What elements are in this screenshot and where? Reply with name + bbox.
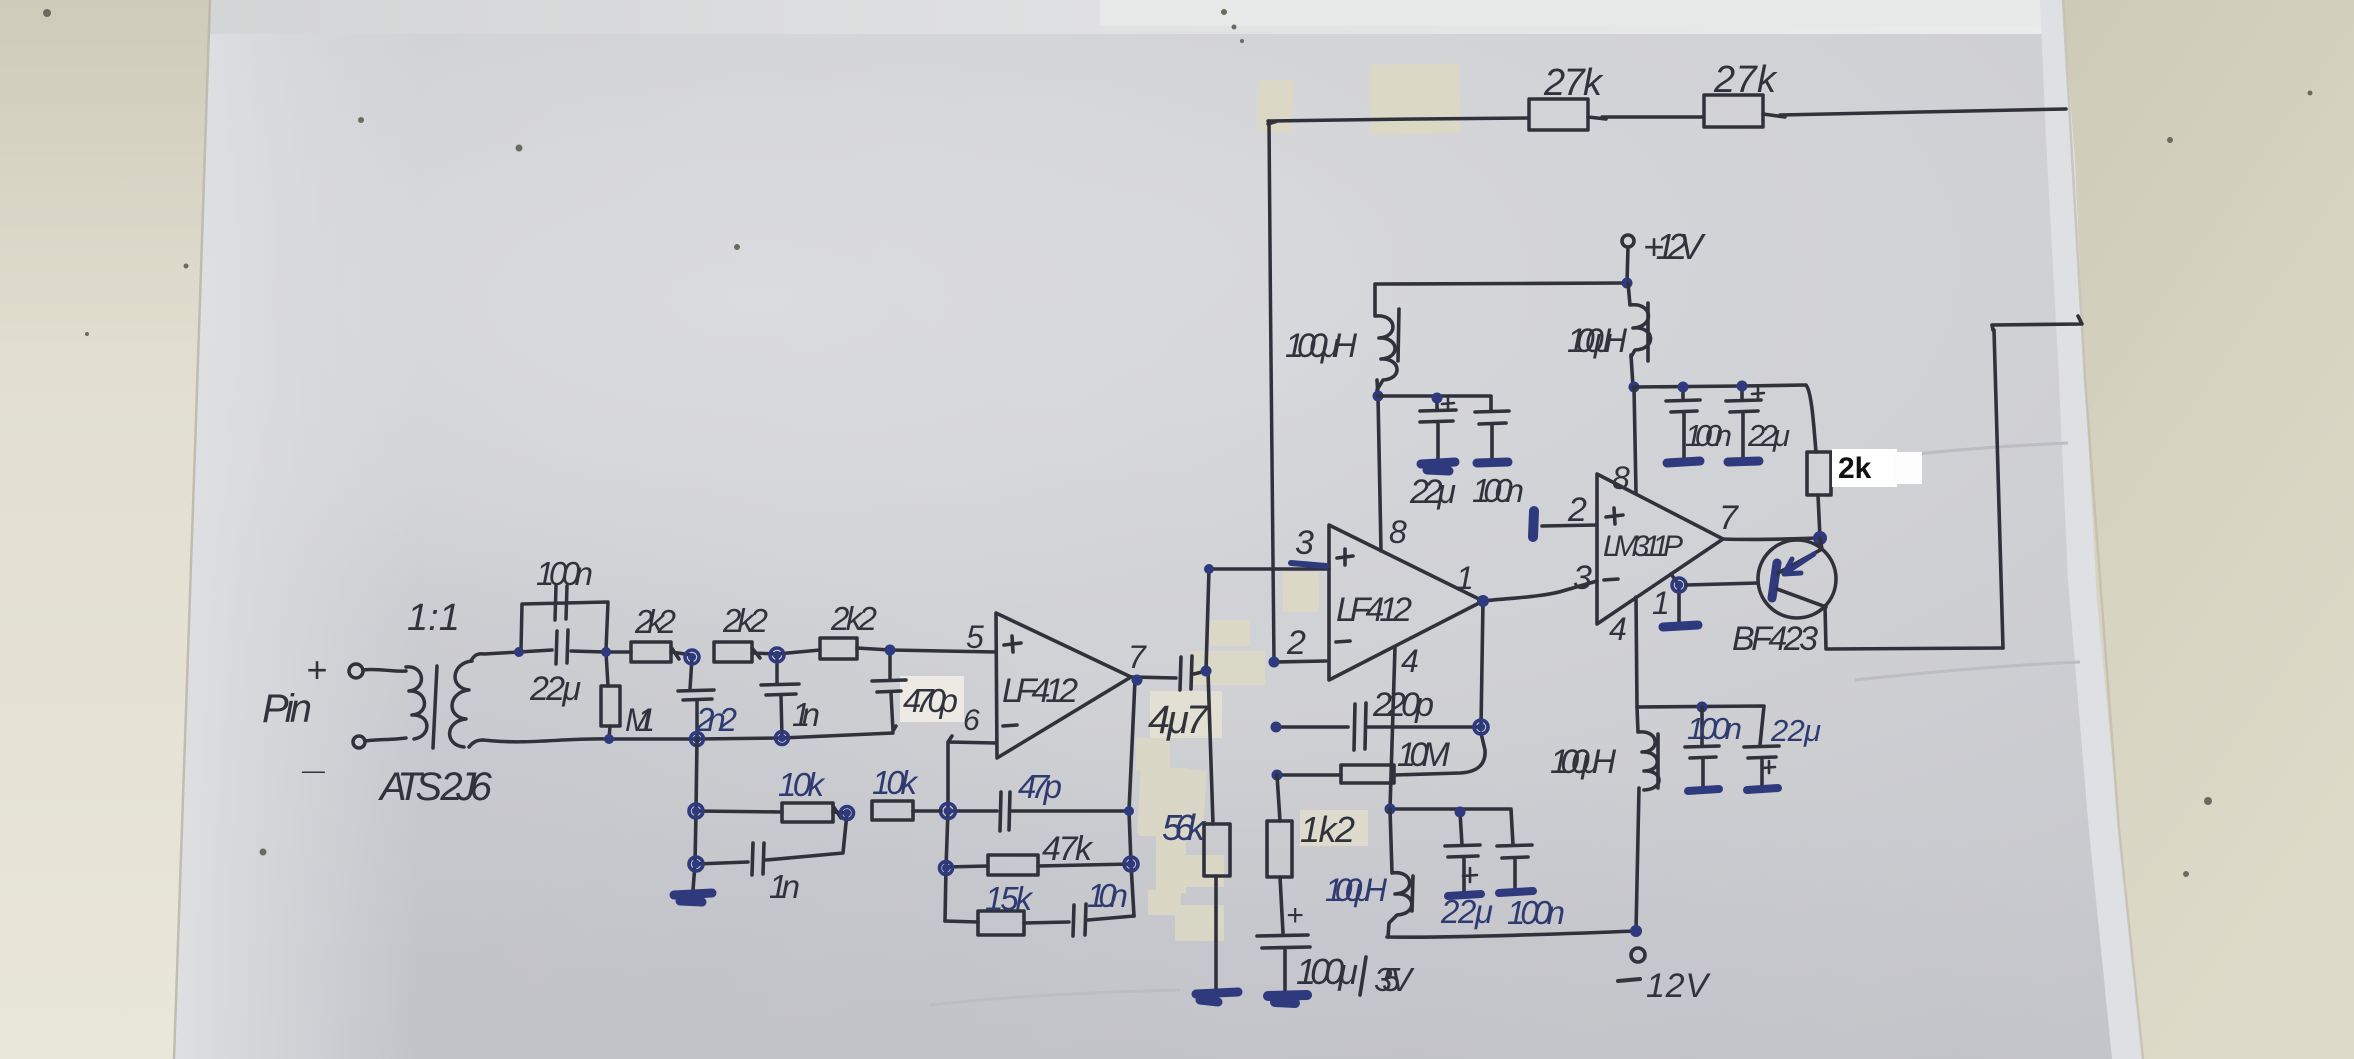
junction node G circled [841,807,854,820]
wire: -12V bottom rail [1387,931,1636,937]
comparator U2 LM311P triangle [1597,474,1723,624]
svg-text:7: 7 [1128,639,1147,675]
wire: 10M branch left [1277,773,1341,777]
inductor core mid [1646,303,1650,361]
plus mark 22u bottom-mid [1463,868,1477,882]
capacitor 1n bottom bars [752,843,764,875]
svg-text:10k: 10k [872,764,919,801]
plus mark 22u right-bottom [1763,761,1775,773]
resistor M1 (vertical) [601,686,620,726]
tape patches [900,63,1461,941]
wire: node D to 2k2#3 [777,650,820,654]
svg-text:10k: 10k [778,766,826,803]
wire: 10n up to corner [1088,916,1134,920]
resistor 2k2 #2 [714,642,752,662]
junction 2n2 bottom circled [691,733,704,746]
wire: riser node F up to pin3 wire [1206,569,1329,671]
inductor 100uH right [1639,732,1659,790]
transistor BF423 circle [1758,540,1836,618]
capacitor 470p (shunt) [872,650,906,731]
ground below 100u [1268,995,1307,1003]
svg-text:Pin: Pin [262,687,312,731]
wire: 220p right to node [1368,725,1481,729]
paper lower-left shading [0,480,1230,1059]
resistor 2k2 #1 [631,642,671,662]
svg-text:8: 8 [1389,514,1407,550]
svg-text:2: 2 [1567,491,1587,529]
svg-text:100μ: 100μ [1296,951,1358,992]
svg-text:1:1: 1:1 [407,597,460,639]
wire: 1n bottom to node G riser [766,813,847,860]
capacitor 47p bars [1000,792,1010,831]
svg-text:47p: 47p [1018,768,1062,805]
junction node D circled [770,648,784,662]
op-amp U1A LF412 triangle [996,613,1131,758]
svg-text:2n2: 2n2 [695,701,737,738]
junction U1B V+ node [1373,391,1384,402]
transistor emitter stroke [1777,589,1826,607]
inductor 100uH left [1376,316,1397,390]
wire: 47p branch left lead [948,809,997,813]
junction U1B output [1477,595,1489,607]
junction 10k top circled [689,804,703,818]
ground bar 100n right-bottom [1688,789,1719,791]
svg-text:4: 4 [1401,643,1419,679]
junction 47k left circled [940,862,953,875]
svg-text:BF423: BF423 [1732,620,1818,658]
junction 22u U1B top [1432,393,1443,404]
junction pin6 node circled [941,804,956,819]
svg-text:470p: 470p [903,682,958,719]
junction V- node [1385,804,1396,815]
transformer core [433,666,437,748]
wire: top 27k feedback rail [1268,118,1528,124]
svg-text:8: 8 [1612,460,1630,496]
capacitor 22u LM311P decoupling [1726,386,1761,459]
wire: rail node B to 2k2#1 [606,650,631,654]
wire: V+ node right to decoupling [1378,396,1491,410]
wire: 220p branch [1276,725,1348,729]
wire: 56k to ground [1214,876,1218,990]
junction node C circled [685,650,699,664]
ground below 56k [1196,992,1238,1002]
capacitor 100u/35V electrolytic [1257,935,1310,991]
wire: - terminal to primary [365,738,406,741]
capacitor 100n right-bottom [1685,707,1719,788]
svg-text:100μH: 100μH [1550,743,1616,781]
inductor core left [1398,309,1399,361]
wire: V- decoupling right pair [1637,706,1764,745]
wire: + terminal to primary [363,669,406,671]
right windowsill [2063,0,2354,1059]
svg-text:+: + [306,649,327,690]
svg-text:22μ: 22μ [1770,713,1821,748]
junction node B [601,647,611,657]
svg-text:2: 2 [1286,624,1306,662]
wire: pin2 stub with blue mark [1542,525,1597,526]
svg-text:100μH: 100μH [1567,322,1627,360]
resistor 2k (vertical) [1807,452,1831,495]
svg-text:2k2: 2k2 [830,600,877,637]
wire: 10k node to ground [693,811,696,890]
wire: emitter down and right loop bottom [1825,606,2003,649]
wire: -12V node up to pin4 of LM311P [1636,597,1639,931]
wire: inductor to U1B V+ node [1377,380,1378,396]
wire: 1k2 to 100u cap [1280,877,1283,933]
wire: 47k branch left lead [946,866,988,867]
wire: pin8 vertical [1378,396,1381,551]
junction 22u top (blue) [1455,807,1466,818]
resistor 27k #1 [1529,99,1588,130]
junction output node [1813,531,1827,545]
junction 100n LM311P top [1678,382,1689,393]
capacitor 22u U1B decoupling [1420,397,1456,460]
ground bar 100n bottom-mid [1499,891,1533,893]
resistor 27k #2 [1704,95,1763,127]
svg-text:2k: 2k [1838,452,1872,485]
svg-text:1: 1 [1456,560,1474,596]
op-amp U1A + symbol [1004,636,1021,652]
junction node E [885,645,896,656]
svg-text:47k: 47k [1042,830,1094,868]
transformer secondary winding [450,661,472,747]
comparator - symbol [1604,579,1618,580]
transformer primary winding [406,667,427,739]
wire: secondary bottom to rail [469,740,483,747]
capacitor 22u right-bottom [1744,746,1779,786]
op-amp U1B - symbol [1336,641,1350,642]
junction node A [514,647,524,657]
resistor 47k [988,855,1038,875]
svg-text:6: 6 [963,704,980,737]
input terminal + [349,664,363,678]
wire: 10k#2 to pin6 node [913,809,941,813]
wire: bottom-rail branch down to 10k node [696,739,697,811]
svg-text:4: 4 [1609,611,1627,647]
junction 220p right circled [1474,720,1488,734]
junction pin1 circled [1672,578,1686,592]
capacitor 100n LM311P decoupling [1666,387,1700,459]
capacitor 22u series (bars on rail) [556,630,568,664]
wire: 2k2#1 tick and to node C [671,647,692,659]
junction node F [1201,666,1212,677]
wire: V+ node down to pin8 [1634,387,1636,492]
svg-text:LF412: LF412 [1002,672,1078,710]
inductor 100uH mid (+12V to LM311P) [1628,283,1651,357]
op-amp U1B LF412 triangle [1329,525,1483,680]
wire: 15k to 10n [1024,922,1069,923]
wire: pin3 overdraw (blue) [1291,563,1326,566]
inductor core bottom-mid [1412,876,1413,911]
junction V- pair [1697,702,1708,713]
wire: U1A output to 4u7 [1131,677,1176,678]
slash of 100u/35V [1360,957,1366,995]
op-amp U1B + symbol [1337,549,1353,565]
junction -12V node [1630,925,1642,937]
svg-text:27k: 27k [1713,59,1778,101]
paper top strip (curled sheet behind) [205,0,2075,34]
svg-text:4μ7: 4μ7 [1148,698,1210,742]
wire: output node down to feedback [1481,601,1483,727]
svg-text:100μH: 100μH [1325,872,1388,908]
white label box 2k [1832,449,1897,487]
capacitor 100n U1B decoupling [1475,411,1509,460]
wire: +12V rail left to U1B inductor [1375,283,1627,316]
svg-text:M1: M1 [625,702,655,738]
wire: pin4 vertical down to V- node [1390,647,1395,809]
junction 1n bottom circled [689,857,703,871]
wire: 10k#1 left lead [696,811,782,812]
wire: 22u to node B [571,651,605,652]
capacitor 1n (shunt) [761,655,799,738]
wire: 15k series branch [945,921,978,922]
ground bar 100n U1B (blue) [1477,462,1508,463]
wire: right loop top stub [1992,316,2082,330]
wire: LM311P output pin7 [1723,538,1818,539]
transistor arrow (blue) [1784,554,1814,574]
junction 47k right circled [1124,857,1138,871]
svg-text:10n: 10n [1087,877,1128,914]
wire: bottom return rail [483,733,893,742]
wire: 1n bottom branch left lead [696,862,748,864]
resistor 10M [1341,765,1394,783]
wire: between 27k resistors [1588,117,1703,119]
svg-text:100μH: 100μH [1285,327,1357,365]
svg-text:100n: 100n [1472,472,1524,509]
ground bar 22u LM311P (blue) [1728,461,1759,462]
resistor 1k2 (vertical) [1267,821,1292,877]
ground bar 100n LM311P (blue) [1667,461,1700,463]
blue tick pin2 [1533,511,1534,537]
wire: V+ node right to 2k [1634,385,1816,452]
svg-text:220p: 220p [1372,686,1434,724]
svg-text:LF412: LF412 [1336,591,1412,629]
svg-text:+12V: +12V [1643,226,1706,267]
paper right edge lit band [2040,0,2143,1059]
wire: pin1 to BF423 base [1686,583,1758,585]
wire: V- node wire right [1390,809,1513,845]
svg-text:100n: 100n [1507,894,1565,931]
plus mark 22u U1B [1442,397,1454,409]
svg-text:7: 7 [1719,499,1739,537]
svg-text:2k2: 2k2 [634,603,676,640]
wire: pin1 stub down [1671,574,1679,621]
svg-text:3: 3 [1573,559,1592,597]
svg-text:5: 5 [966,619,984,655]
svg-text:10M: 10M [1397,736,1451,774]
svg-text:100n: 100n [1685,418,1732,453]
junction +12V rail node [1622,278,1633,289]
ground bar 22u U1B (blue) [1421,462,1455,471]
svg-text:56k: 56k [1162,807,1207,848]
resistor 2k2 #3 [820,638,857,659]
wire: feedback right rail (output node down) [1129,680,1135,916]
wire: secondary top to rail [471,652,519,661]
wire: +12V down to rail [1627,247,1628,283]
wire: U1B output to LM311P pin3 [1483,581,1597,601]
junction 47p right [1124,806,1134,816]
resistor 15k [978,911,1024,935]
junction pin3 riser corner [1204,564,1214,574]
comparator + symbol [1606,508,1623,524]
wire: after second 27k to paper edge [1763,109,2066,117]
paper edge boundary lines [174,0,210,1059]
inductor 100uH bottom-mid [1388,809,1412,937]
input terminal - [353,736,365,748]
wire: 47p to right rail [1012,809,1129,813]
ground bar pin1 (blue) [1663,625,1698,627]
capacitor 22u bottom-mid [1445,812,1480,893]
wire: pin2 stub [1274,661,1326,662]
capacitor 2n2 (shunt) [678,658,714,738]
wire: node F down to 56k [1208,671,1213,824]
op-amp U1A - symbol [1003,725,1017,726]
transistor base bar (blue) [1772,563,1777,598]
junction 220p left [1271,722,1282,733]
junction M1 bottom [604,734,614,744]
capacitor 10n bars [1073,904,1086,936]
paper creases [930,443,2080,1005]
svg-text:1: 1 [1652,585,1670,621]
capacitor 100n bottom-mid [1497,845,1532,890]
terminal -12V [1631,948,1645,962]
svg-text:15k: 15k [985,880,1034,917]
junction 22u LM311P top [1737,381,1748,392]
junction pin2 node [1269,657,1280,668]
svg-text:27k: 27k [1543,62,1604,104]
svg-text:35V: 35V [1374,961,1415,998]
wire: 10M right hook up to 220p node [1394,733,1485,775]
svg-text:100n: 100n [536,555,593,592]
wire: 47k to right rail [1038,864,1131,866]
svg-text:ATS 2J6: ATS 2J6 [378,765,493,809]
junction 10M left [1272,770,1283,781]
ground below 10k chain [674,893,712,902]
capacitor 100n bypass loop [521,586,608,650]
resistor 10k #2 [872,801,913,820]
wire: left rail pin6 node down [945,810,948,921]
wire: pin6 stub left and down [948,736,996,810]
svg-text:22μ: 22μ [1440,893,1493,930]
junction U1A output [1132,675,1143,686]
wire: 10k#1 tick to node G [833,806,847,818]
paper top edge faint line [212,1,1105,30]
svg-text:_: _ [301,733,327,777]
svg-text:22μ: 22μ [529,670,581,708]
schematic ink [1268,95,2066,662]
wire: feedback rail vertical to pin2 node [1269,121,1274,662]
inductor core right [1656,734,1660,788]
svg-text:+: + [1286,899,1304,932]
wire: M1 leads [606,652,610,739]
svg-text:2k2: 2k2 [722,602,768,639]
ground bar 22u bottom-mid [1448,894,1481,896]
ground bar 22u right-bottom [1747,788,1778,790]
terminal +12V [1622,235,1634,247]
resistor 10k #1 [782,803,833,822]
wire: inductor to LM311P V+ node [1631,355,1633,387]
resistor 56k (vertical) [1204,824,1230,876]
plus mark 22u LM311P [1752,387,1764,399]
left windowsill [0,0,210,1059]
svg-text:22μ: 22μ [1409,473,1456,511]
svg-text:22μ: 22μ [1747,418,1790,453]
transistor collector stroke [1778,538,1822,573]
minus dash of -12V [1618,979,1640,981]
svg-text:3: 3 [1295,524,1314,562]
svg-text:100n: 100n [1687,711,1742,746]
svg-text:1n: 1n [769,868,800,905]
wire: top rail node A to 22u [519,650,552,652]
capacitor 4u7 bars [1180,656,1192,690]
paper left lit band [172,0,420,1059]
capacitor 220p bars [1354,703,1366,750]
svg-text:12V: 12V [1646,967,1711,1005]
wire: 2k2#3 to node E and to opamp pin5 [857,648,996,652]
wire: 4u7 to node F [1194,671,1206,674]
svg-text:1n: 1n [792,696,820,733]
wire: 2k to output junction [1818,495,1820,538]
junction LM311P V+ node [1629,382,1640,393]
svg-text:LM311P: LM311P [1603,530,1683,563]
wire: 1k2 lead from 10M node [1277,775,1280,821]
svg-text:1k2: 1k2 [1300,809,1355,850]
wire: right loop vertical up [1994,330,2003,648]
wire: 2k2#2 tick to node D [752,648,777,658]
junction 1n bottom circled [776,732,789,745]
